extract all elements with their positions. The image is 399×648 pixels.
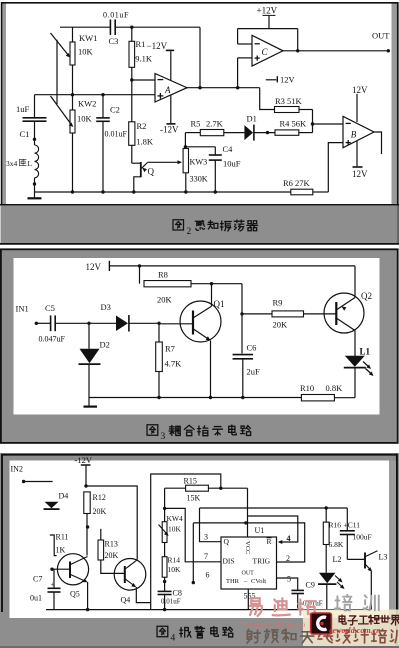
potentiometer KW4 <box>162 522 167 543</box>
capacitor C6 <box>233 354 254 356</box>
svg-text:R4 56K: R4 56K <box>280 119 308 129</box>
wire VCC loop from Q4 <box>151 474 221 603</box>
wire Q to KW3 wiper <box>148 161 181 163</box>
wire TRIG drop <box>192 523 194 583</box>
node R7 top <box>157 322 160 325</box>
resistor R7 <box>158 323 160 342</box>
node C6 bottom <box>241 396 244 399</box>
svg-text:R3 51K: R3 51K <box>275 96 303 106</box>
node KW1 bottom <box>72 65 74 95</box>
svg-text:R15: R15 <box>184 477 197 486</box>
svg-text:12V: 12V <box>352 85 368 95</box>
svg-text:R2: R2 <box>137 121 147 131</box>
svg-text:KW3: KW3 <box>190 158 208 167</box>
resistor R8 <box>139 266 141 284</box>
potentiometer KW3 <box>183 149 188 173</box>
wire KW3 top to R5/C4 <box>185 133 215 147</box>
svg-text:3x4: 3x4 <box>6 159 18 168</box>
svg-text:D2: D2 <box>100 340 110 350</box>
potentiometer KW2 <box>72 95 74 110</box>
svg-text:+12V: +12V <box>257 6 278 16</box>
ground <box>34 192 36 198</box>
svg-text:0.047uF: 0.047uF <box>39 335 66 344</box>
svg-text:VCC: VCC <box>244 541 251 554</box>
op-amp A V- supply -12V <box>170 95 172 124</box>
wire bottom rail panel2 <box>89 397 301 399</box>
wire op-amp B output <box>374 132 382 154</box>
svg-text:R10: R10 <box>300 383 314 393</box>
resistor R16 <box>325 508 327 522</box>
ground panel2 <box>88 398 90 407</box>
resistor R5 <box>185 132 200 134</box>
svg-text:12V: 12V <box>86 262 102 272</box>
svg-text:0u1: 0u1 <box>30 594 42 603</box>
svg-text:10uF: 10uF <box>223 159 241 169</box>
svg-text:Q5: Q5 <box>70 590 80 599</box>
svg-text:4: 4 <box>287 534 291 543</box>
svg-text:1.8K: 1.8K <box>136 137 154 147</box>
op-amp B V- supply 12V <box>356 141 358 167</box>
caption figure 2 <box>173 220 184 230</box>
node R7 bottom <box>157 396 160 399</box>
wire feedback to top rail <box>199 27 201 87</box>
svg-text:4.7K: 4.7K <box>165 359 183 369</box>
resistor R1 <box>131 27 133 41</box>
resistor R9 <box>242 313 272 315</box>
node op-amp A inverting input <box>130 78 133 81</box>
svg-text:4: 4 <box>171 634 176 644</box>
svg-text:R16: R16 <box>329 521 342 530</box>
op-amp B V+ supply 12V <box>356 94 358 122</box>
watermark logo <box>311 613 332 634</box>
svg-text:B: B <box>351 130 357 140</box>
svg-text:A: A <box>164 85 171 95</box>
svg-text:-12V: -12V <box>75 455 93 465</box>
svg-text:L2: L2 <box>333 555 342 564</box>
wire Q4 emitter loop <box>136 587 150 603</box>
wire C5 to D3 <box>56 322 116 324</box>
resistor R12 <box>84 492 90 514</box>
resistor R15 <box>165 487 186 489</box>
svg-text:D1: D1 <box>247 114 257 124</box>
svg-text:OUT: OUT <box>372 31 390 41</box>
svg-text:L1: L1 <box>360 347 371 357</box>
resistor R2 <box>131 80 133 122</box>
node KW4 top <box>163 507 166 510</box>
svg-text:U1: U1 <box>255 526 265 535</box>
transistor Q5 <box>57 554 88 585</box>
node pin8 junction <box>244 521 247 524</box>
svg-text:C7: C7 <box>33 575 42 584</box>
svg-text:0.01uF: 0.01uF <box>161 598 181 606</box>
wire R6 to op-amp B plus <box>328 143 343 192</box>
svg-text:Q4: Q4 <box>121 596 131 605</box>
transistor Q2 <box>324 293 364 333</box>
svg-text:TRIG: TRIG <box>253 557 271 566</box>
svg-text:3: 3 <box>204 533 208 542</box>
wire bottom rail <box>35 191 291 193</box>
resistor R14 <box>162 557 167 578</box>
svg-text:12V: 12V <box>280 75 296 85</box>
node Q1 collector <box>210 282 213 285</box>
node op-amp C plus tap <box>236 86 239 89</box>
capacitor C3 <box>109 19 111 35</box>
svg-text:D4: D4 <box>59 492 69 501</box>
svg-text:R7: R7 <box>165 344 175 354</box>
wire to C11 <box>346 508 348 531</box>
capacitor C9 <box>291 589 304 591</box>
svg-text:R: R <box>267 537 272 546</box>
svg-text:DIS: DIS <box>223 557 235 566</box>
svg-text:20K: 20K <box>105 551 119 560</box>
svg-text:6.8K: 6.8K <box>329 540 344 549</box>
node op-amp C output <box>296 49 299 52</box>
svg-text:2: 2 <box>187 227 192 237</box>
node L bottom <box>33 182 36 185</box>
pin 1 wire <box>247 589 249 610</box>
svg-text:OUT: OUT <box>242 571 255 577</box>
wire output bus <box>200 507 348 509</box>
wire C6 branch <box>241 284 243 354</box>
svg-text:-12V: -12V <box>160 125 179 135</box>
op-amp C <box>252 35 283 66</box>
svg-text:+: + <box>51 581 55 589</box>
resistor R11 <box>50 535 57 556</box>
svg-text:C4: C4 <box>223 144 234 154</box>
node R9 tap <box>240 312 243 315</box>
svg-text:0.01uF: 0.01uF <box>105 130 128 139</box>
svg-text:2: 2 <box>286 554 290 563</box>
op-amp B <box>343 116 374 148</box>
op-amp A V+ supply -12V <box>170 51 172 80</box>
svg-text:THR: THR <box>226 578 240 585</box>
node C2 bottom <box>101 190 104 193</box>
svg-text:Q1: Q1 <box>214 299 225 309</box>
svg-text:R9: R9 <box>273 298 283 308</box>
svg-text:10K: 10K <box>77 114 93 124</box>
resistor R13 <box>100 529 102 540</box>
node R8 tap <box>138 264 141 267</box>
wire R3-R4 junction to op-amp B <box>312 110 314 133</box>
svg-text:R1: R1 <box>136 39 146 49</box>
svg-text:2.7K: 2.7K <box>206 119 224 129</box>
svg-text:330K: 330K <box>190 175 208 184</box>
wire feedback to output <box>297 29 299 51</box>
svg-text:6: 6 <box>206 571 210 580</box>
svg-text:C9: C9 <box>306 581 315 590</box>
node Q1 emitter bottom <box>209 396 212 399</box>
svg-text:IN2: IN2 <box>11 465 23 474</box>
svg-text:+C11: +C11 <box>344 521 361 530</box>
svg-text:20K: 20K <box>273 320 289 330</box>
wire TRIG bus <box>193 523 304 562</box>
wire 12V rail <box>109 265 355 267</box>
svg-text:R14: R14 <box>168 556 181 565</box>
node D1-R4 <box>266 131 269 134</box>
caption figure 4 <box>157 626 168 636</box>
wire op-amp C plus input <box>238 57 252 59</box>
node KW3 top <box>184 145 187 148</box>
svg-text:R6 27K: R6 27K <box>283 178 311 188</box>
node R14-C8 <box>163 580 166 583</box>
node -12V junction <box>84 484 87 487</box>
svg-text:9.1K: 9.1K <box>135 54 153 64</box>
wire top rail <box>60 26 110 28</box>
inductor L 3x4 turns <box>34 139 36 145</box>
node C2 top <box>101 93 104 96</box>
wire R13 to Q4 base <box>101 560 125 573</box>
svg-text:C2: C2 <box>110 105 120 115</box>
svg-text:eeworld.com.cn: eeworld.com.cn <box>329 626 381 635</box>
right edge strip panel3 <box>389 461 396 619</box>
wire -12V to Q4 collector <box>86 486 137 560</box>
wire reset R <box>248 516 298 542</box>
svg-text:C5: C5 <box>45 303 55 313</box>
svg-text:2uF: 2uF <box>247 367 261 377</box>
svg-text:KW2: KW2 <box>78 99 96 109</box>
svg-text:15K: 15K <box>187 494 201 503</box>
svg-text:CVolt: CVolt <box>251 578 266 585</box>
svg-text:−12V: −12V <box>147 41 168 51</box>
svg-text:10K: 10K <box>168 565 182 574</box>
svg-text:R5: R5 <box>191 119 201 129</box>
svg-text:5: 5 <box>287 575 291 584</box>
wire top rail right <box>116 26 200 28</box>
svg-text:C3: C3 <box>109 36 119 46</box>
node KW3 bottom <box>184 190 187 193</box>
svg-text:L3: L3 <box>379 553 388 562</box>
svg-text:R8: R8 <box>158 270 168 280</box>
svg-text:KW1: KW1 <box>79 33 97 43</box>
svg-text:R11: R11 <box>56 533 69 542</box>
transistor Q1 <box>180 301 221 342</box>
svg-text:20K: 20K <box>157 295 173 305</box>
svg-text:Q: Q <box>148 167 155 177</box>
wire op-amp C feedback <box>238 28 298 30</box>
svg-text:10K: 10K <box>78 47 94 57</box>
svg-text:C8: C8 <box>173 589 182 598</box>
svg-text:C6: C6 <box>247 343 257 353</box>
watermark <box>303 610 399 648</box>
wire VCC vertical <box>247 488 249 537</box>
IC U1 555 box <box>221 537 277 589</box>
node R16 top <box>325 506 328 509</box>
svg-text:1K: 1K <box>56 546 66 555</box>
transistor Q3 <box>347 558 365 560</box>
wire OUT <box>283 50 388 52</box>
wire main node to DIS <box>165 508 221 561</box>
svg-text:C1: C1 <box>20 129 30 139</box>
pin 3 wire Q output <box>200 508 222 542</box>
svg-text:KW4: KW4 <box>167 514 183 523</box>
wire R8 to Q1 collector node <box>191 283 242 285</box>
node R1 top <box>130 26 133 29</box>
capacitor C4 <box>214 147 216 155</box>
svg-text:R13: R13 <box>105 540 118 549</box>
svg-text:Q2: Q2 <box>361 291 372 301</box>
node Q5 base <box>50 568 53 571</box>
svg-text:1uF: 1uF <box>16 104 30 114</box>
svg-text:L: L <box>28 159 33 168</box>
node R15 right-A junction <box>219 487 222 490</box>
pin 5 wire CVolt to C9 <box>277 578 298 590</box>
gang line KW1-KW2 <box>56 40 58 104</box>
svg-text:IN1: IN1 <box>16 304 29 314</box>
caption figure 3 <box>147 425 158 435</box>
svg-text:12V: 12V <box>352 169 368 179</box>
svg-text:3: 3 <box>161 432 166 442</box>
transistor Q <box>132 162 141 164</box>
node C4 bottom <box>214 190 217 193</box>
wire to op-amp A minus <box>132 79 155 81</box>
svg-text:C: C <box>262 47 269 57</box>
transistor Q4 <box>114 559 146 591</box>
potentiometer KW1 <box>72 27 74 42</box>
wire bottom rail panel3 <box>46 609 371 611</box>
svg-text:D3: D3 <box>101 302 111 312</box>
op-amp C V- mark 12V <box>266 79 277 81</box>
capacitor C8 <box>164 582 166 592</box>
node C1-L junction <box>33 138 36 141</box>
svg-text:0.8K: 0.8K <box>326 383 344 393</box>
op-amp A <box>155 74 187 103</box>
node Q emitter ground <box>132 190 135 193</box>
svg-text:100uF: 100uF <box>353 533 372 542</box>
wire op-amp A output to R3 <box>260 88 275 110</box>
svg-text:R12: R12 <box>93 493 106 502</box>
svg-text:www.eeworld.com.cn: www.eeworld.com.cn <box>244 621 306 629</box>
wire R15 left down to KW4 node <box>164 488 166 508</box>
svg-text:20K: 20K <box>93 507 107 516</box>
wire mid rail <box>35 94 156 96</box>
svg-text:Q: Q <box>224 537 230 546</box>
node KW2 bottom <box>71 190 74 193</box>
svg-text:10K: 10K <box>168 525 182 534</box>
svg-text:7: 7 <box>204 552 208 561</box>
wire op-amp A output <box>187 87 260 89</box>
node rail joints <box>86 608 89 611</box>
node D2 tap <box>87 322 90 325</box>
node feedback tap <box>198 86 201 89</box>
capacitor C2 <box>102 95 104 118</box>
node R12-R13 <box>86 525 89 528</box>
svg-text:0.01uF: 0.01uF <box>103 11 129 20</box>
